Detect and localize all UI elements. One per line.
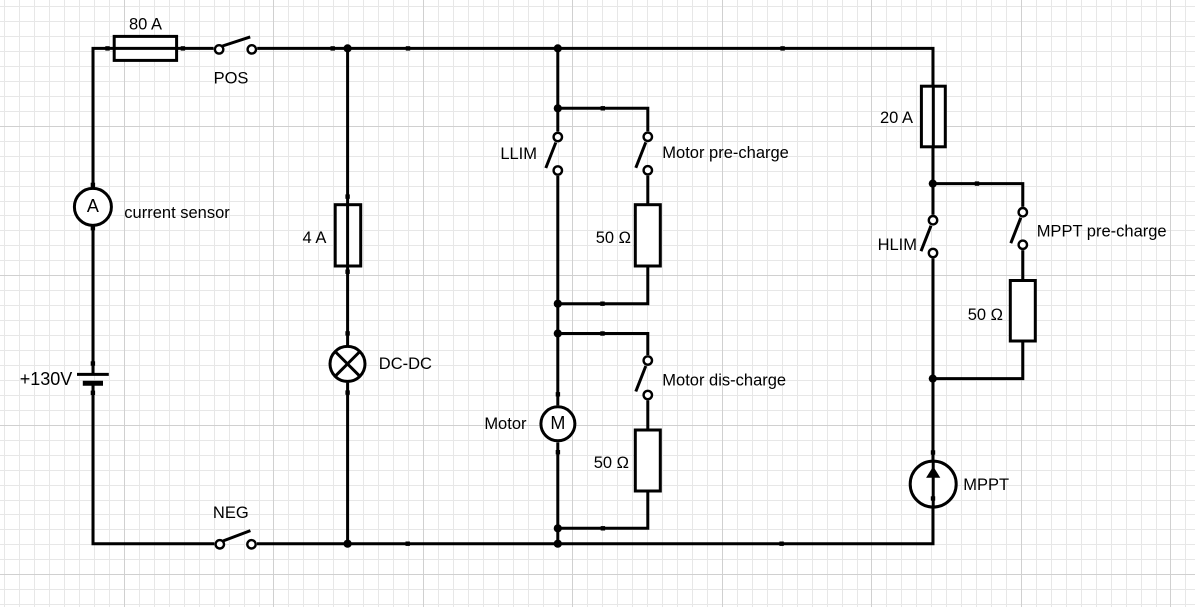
junction dot MPPT loop top	[929, 180, 937, 188]
fuse 80A	[114, 36, 176, 60]
svg-text:MPPT pre-charge: MPPT pre-charge	[1037, 223, 1167, 241]
svg-text:HLIM: HLIM	[878, 236, 917, 254]
wire bottom bus right with corner	[257, 508, 933, 544]
junction dot bottom motor branch	[554, 540, 562, 548]
svg-text:current sensor: current sensor	[124, 204, 230, 222]
current sensor A	[74, 188, 111, 225]
wire top bus left with corner	[93, 48, 214, 187]
switch Motor pre-charge	[636, 133, 652, 175]
svg-text:Motor pre-charge: Motor pre-charge	[662, 144, 789, 162]
switch MPPT pre-charge	[1011, 208, 1027, 249]
switch POS	[215, 37, 256, 54]
switch LLIM	[546, 133, 562, 175]
switch HLIM	[921, 216, 937, 257]
fuse 4A	[335, 205, 361, 266]
svg-text:A: A	[87, 196, 99, 216]
svg-text:Motor dis-charge: Motor dis-charge	[662, 371, 786, 389]
wire waypoint ticks	[91, 46, 980, 546]
junction dot top 4A branch	[344, 44, 352, 52]
resistor 50 Ohm MPPT	[1010, 281, 1035, 342]
svg-text:4 A: 4 A	[303, 229, 327, 247]
svg-text:50 Ω: 50 Ω	[968, 306, 1003, 324]
svg-text:DC-DC: DC-DC	[379, 355, 432, 373]
fuse 20A	[921, 86, 945, 147]
wire 4A branch	[346, 48, 349, 543]
wire left vertical middle	[92, 227, 95, 375]
resistor 50 Ohm pre-charge	[635, 205, 660, 266]
switch Motor dis-charge	[636, 356, 652, 399]
junction dot bottom 4A branch	[344, 540, 352, 548]
svg-text:NEG: NEG	[213, 504, 249, 522]
junction dot pre-charge bottom	[554, 300, 562, 308]
motor M	[541, 407, 575, 441]
wire motor dis-charge loop	[558, 334, 648, 529]
svg-text:50 Ω: 50 Ω	[596, 229, 631, 247]
lamp DC-DC	[330, 346, 365, 381]
svg-text:Motor: Motor	[484, 415, 527, 433]
battery +130V	[77, 374, 109, 383]
svg-text:LLIM: LLIM	[500, 145, 537, 163]
junction dot pre-charge top	[554, 104, 562, 112]
wire MPPT pre-charge loop	[933, 184, 1023, 379]
junction dot dis-charge bottom	[554, 524, 562, 532]
wire top bus right with corner	[257, 48, 933, 86]
svg-text:20 A: 20 A	[880, 109, 913, 127]
wire left bottom with corner	[93, 386, 214, 544]
svg-text:50 Ω: 50 Ω	[594, 454, 629, 472]
junction dot top motor branch	[554, 44, 562, 52]
resistor 50 Ohm dis-charge	[635, 430, 660, 491]
current source MPPT	[910, 460, 956, 508]
svg-text:POS: POS	[214, 70, 249, 88]
svg-text:80 A: 80 A	[129, 16, 162, 34]
switch NEG	[216, 531, 256, 549]
wire motor branch	[556, 48, 559, 543]
svg-text:+130V: +130V	[20, 369, 73, 389]
wire motor pre-charge loop	[558, 108, 648, 303]
wire right vertical segments	[932, 147, 935, 460]
junction dot MPPT loop bottom	[929, 375, 937, 383]
junction dot dis-charge top	[554, 329, 562, 337]
svg-text:MPPT: MPPT	[963, 476, 1009, 494]
svg-text:M: M	[550, 413, 565, 433]
